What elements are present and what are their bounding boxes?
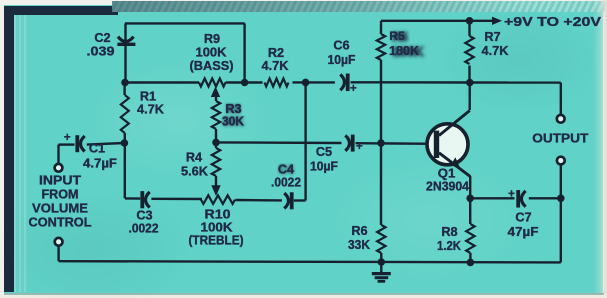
svg-text:C2: C2: [94, 31, 110, 45]
svg-text:.0022: .0022: [129, 222, 159, 236]
svg-text:R5: R5: [389, 29, 405, 43]
svg-text:R8: R8: [441, 225, 457, 239]
svg-text:4.7K: 4.7K: [482, 44, 510, 58]
svg-text:C3: C3: [136, 209, 152, 223]
svg-text:4.7K: 4.7K: [137, 103, 165, 117]
svg-text:C4: C4: [278, 163, 294, 177]
svg-text:INPUT: INPUT: [39, 174, 81, 188]
svg-text:C1: C1: [89, 142, 105, 156]
svg-text:+: +: [356, 141, 363, 153]
svg-text:4.7µF: 4.7µF: [83, 157, 117, 171]
svg-text:10µF: 10µF: [328, 53, 356, 67]
svg-text:R1: R1: [140, 90, 156, 104]
svg-text:33K: 33K: [348, 238, 371, 252]
svg-text:.0022: .0022: [271, 176, 301, 190]
svg-text:2N3904: 2N3904: [426, 180, 469, 194]
svg-text:C7: C7: [515, 211, 531, 225]
svg-text:.039: .039: [87, 45, 115, 59]
svg-text:100K: 100K: [201, 221, 234, 235]
svg-text:+: +: [508, 188, 515, 200]
svg-text:R10: R10: [205, 208, 231, 222]
svg-text:R2: R2: [268, 46, 284, 60]
svg-text:CONTROL: CONTROL: [29, 216, 92, 230]
svg-text:+: +: [64, 132, 71, 144]
svg-text:+9V TO +20V: +9V TO +20V: [504, 14, 601, 29]
svg-text:1.2K: 1.2K: [437, 239, 462, 253]
svg-text:R9: R9: [204, 32, 220, 46]
svg-text:4.7K: 4.7K: [262, 59, 290, 73]
svg-text:5.6K: 5.6K: [181, 165, 209, 179]
svg-text:R6: R6: [351, 224, 367, 238]
svg-text:OUTPUT: OUTPUT: [532, 131, 588, 146]
svg-text:FROM: FROM: [42, 188, 79, 202]
svg-text:47µF: 47µF: [508, 225, 539, 239]
svg-text:(BASS): (BASS): [190, 59, 234, 73]
svg-text:R4: R4: [186, 151, 202, 165]
svg-text:C5: C5: [316, 145, 332, 159]
svg-text:Q1: Q1: [438, 166, 456, 181]
svg-text:30K: 30K: [222, 115, 245, 129]
svg-text:(TREBLE): (TREBLE): [189, 234, 244, 248]
svg-text:VOLUME: VOLUME: [32, 202, 88, 216]
svg-text:180K: 180K: [389, 43, 420, 58]
svg-text:+: +: [350, 83, 357, 95]
svg-text:R7: R7: [484, 30, 500, 44]
svg-text:100K: 100K: [196, 46, 228, 60]
svg-text:C6: C6: [333, 39, 349, 53]
svg-text:10µF: 10µF: [310, 160, 338, 174]
